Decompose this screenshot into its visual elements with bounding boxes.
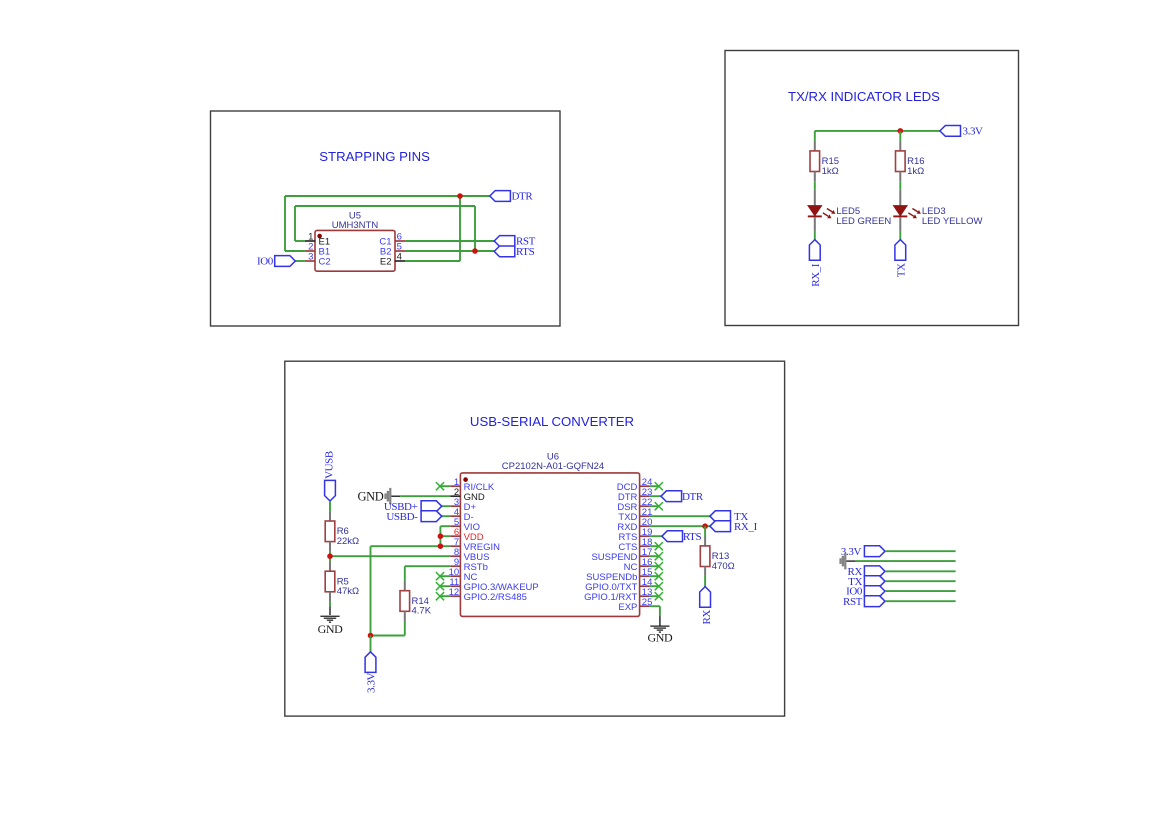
svg-text:USB-SERIAL CONVERTER: USB-SERIAL CONVERTER [470, 414, 634, 429]
svg-text:IO0: IO0 [257, 256, 274, 268]
svg-text:C2: C2 [319, 257, 331, 268]
svg-text:3.3V: 3.3V [963, 125, 984, 137]
svg-text:RST: RST [843, 596, 863, 608]
svg-text:EXP: EXP [618, 602, 637, 613]
svg-text:47kΩ: 47kΩ [337, 586, 359, 597]
svg-text:UMH3NTN: UMH3NTN [332, 220, 379, 231]
svg-text:RX_I: RX_I [734, 521, 758, 533]
svg-text:3: 3 [308, 252, 313, 263]
svg-text:RX_I: RX_I [810, 263, 822, 287]
svg-text:STRAPPING PINS: STRAPPING PINS [319, 149, 430, 164]
svg-text:RX: RX [701, 610, 713, 625]
svg-text:CP2102N-A01-GQFN24: CP2102N-A01-GQFN24 [502, 461, 604, 472]
svg-text:1kΩ: 1kΩ [822, 166, 839, 177]
svg-text:GND: GND [358, 490, 384, 504]
svg-text:12: 12 [449, 587, 460, 598]
svg-text:VUSB: VUSB [324, 451, 336, 479]
svg-text:LED GREEN: LED GREEN [836, 216, 891, 227]
svg-text:RTS: RTS [516, 246, 535, 258]
svg-text:3.3V: 3.3V [365, 672, 377, 693]
svg-text:4: 4 [397, 252, 402, 263]
svg-text:LED YELLOW: LED YELLOW [922, 216, 983, 227]
svg-text:DTR: DTR [512, 191, 534, 203]
svg-text:22kΩ: 22kΩ [337, 536, 359, 547]
svg-text:GPIO.2/RS485: GPIO.2/RS485 [464, 592, 527, 603]
svg-text:RTS: RTS [683, 531, 702, 543]
svg-text:1kΩ: 1kΩ [907, 166, 924, 177]
svg-text:GND: GND [318, 622, 344, 636]
svg-text:TX/RX INDICATOR LEDS: TX/RX INDICATOR LEDS [788, 89, 940, 104]
svg-text:TX: TX [896, 263, 908, 277]
svg-text:USBD-: USBD- [386, 511, 418, 523]
svg-text:470Ω: 470Ω [712, 561, 735, 572]
svg-text:GND: GND [647, 631, 673, 645]
svg-text:4.7K: 4.7K [412, 606, 432, 617]
svg-text:E2: E2 [380, 257, 392, 268]
svg-text:DTR: DTR [682, 491, 704, 503]
